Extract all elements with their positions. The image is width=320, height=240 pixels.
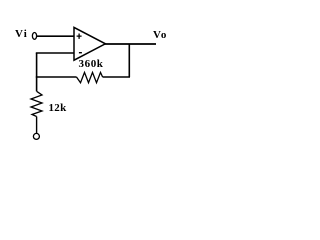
svg-text:Vi: Vi bbox=[15, 28, 28, 40]
svg-text:360k: 360k bbox=[79, 58, 104, 70]
svg-text:Vo: Vo bbox=[153, 29, 167, 41]
wire feedback right segment bbox=[103, 76, 130, 78]
input terminal circle bbox=[32, 33, 36, 40]
wire feedback left segment bbox=[36, 76, 77, 78]
resistor R1 360k zigzag bbox=[77, 72, 103, 82]
ground terminal circle bbox=[33, 133, 39, 139]
wire inverting input bbox=[36, 52, 74, 54]
op-amp minus sign bbox=[79, 52, 82, 54]
wire op-amp output to Vo bbox=[105, 43, 157, 45]
op-amp plus sign bbox=[77, 34, 82, 39]
wire Vi terminal to op-amp non-inverting input bbox=[37, 35, 74, 37]
wire left vertical node bbox=[36, 53, 38, 91]
wire resistor to ground terminal bbox=[36, 117, 38, 134]
svg-text:12k: 12k bbox=[49, 102, 68, 114]
resistor R2 12k zigzag bbox=[31, 91, 42, 116]
wire feedback vertical tap from output bbox=[128, 44, 130, 77]
op-amp U1 triangle bbox=[74, 27, 105, 60]
